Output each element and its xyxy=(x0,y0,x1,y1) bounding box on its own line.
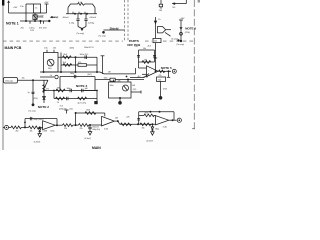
svg-text:0.15µ: 0.15µ xyxy=(69,22,75,24)
svg-text:100n P.U.: 100n P.U. xyxy=(80,54,89,56)
svg-text:(To amp): (To amp) xyxy=(77,33,85,35)
svg-text:22k: 22k xyxy=(127,117,130,119)
svg-text:390k: 390k xyxy=(145,113,149,115)
svg-text:2k2: 2k2 xyxy=(172,7,175,9)
svg-text:+10V: +10V xyxy=(180,18,186,20)
svg-text:(To amp): (To amp) xyxy=(171,39,178,41)
svg-text:2,200µ: 2,200µ xyxy=(88,22,95,24)
svg-text:2k2: 2k2 xyxy=(154,41,157,43)
svg-text:(220): (220) xyxy=(34,98,39,100)
svg-text:MAIN: MAIN xyxy=(92,146,101,150)
svg-text:15k: 15k xyxy=(142,127,145,129)
svg-text:22k: 22k xyxy=(159,75,162,77)
svg-text:IC3: IC3 xyxy=(60,106,63,108)
svg-text:(To amp): (To amp) xyxy=(99,35,106,37)
svg-text:22k: 22k xyxy=(80,128,83,130)
svg-text:(To amp): (To amp) xyxy=(177,44,185,46)
svg-text:1 k: 1 k xyxy=(35,8,38,10)
svg-text:(4.0mV): (4.0mV) xyxy=(147,141,154,143)
svg-text:1k8: 1k8 xyxy=(132,85,135,87)
svg-text:+160mV: +160mV xyxy=(89,17,97,19)
svg-text:4k7: 4k7 xyxy=(138,76,141,78)
svg-text:15k: 15k xyxy=(22,77,25,79)
svg-text:39k: 39k xyxy=(57,88,60,90)
svg-text:MAIN PCB: MAIN PCB xyxy=(5,46,22,50)
svg-text:(6.3mV): (6.3mV) xyxy=(85,138,92,140)
svg-text:100n: 100n xyxy=(67,88,71,90)
svg-text:(2V): (2V) xyxy=(133,89,137,91)
svg-text:10k: 10k xyxy=(143,48,146,50)
svg-text:680p (7kHz): 680p (7kHz) xyxy=(34,119,44,121)
svg-text:(6k8): (6k8) xyxy=(70,47,75,49)
svg-text:1M: 1M xyxy=(144,60,147,62)
svg-text:100mV P.U.: 100mV P.U. xyxy=(84,47,94,49)
svg-text:NOISE: NOISE xyxy=(36,16,44,19)
svg-text:47k: 47k xyxy=(46,89,49,91)
svg-text:100k: 100k xyxy=(86,110,90,112)
svg-text:Ch5a (p): Ch5a (p) xyxy=(5,81,13,83)
svg-text:100p: 100p xyxy=(70,73,74,75)
svg-text:+10V: +10V xyxy=(44,2,50,4)
svg-text:NOTE 1: NOTE 1 xyxy=(6,21,19,25)
svg-text:(To amp): (To amp) xyxy=(29,110,36,112)
svg-text:IC3b: IC3b xyxy=(104,128,108,130)
svg-text:NOTE 5: NOTE 5 xyxy=(161,66,172,70)
svg-text:-160mV: -160mV xyxy=(62,17,69,19)
svg-text:47k: 47k xyxy=(118,81,121,83)
svg-text:1k8: 1k8 xyxy=(115,117,118,119)
svg-text:IC4b: IC4b xyxy=(163,126,167,128)
svg-text:(4k7): (4k7) xyxy=(88,74,93,76)
svg-text:0.068: 0.068 xyxy=(43,130,48,132)
svg-text:(7.5V): (7.5V) xyxy=(143,76,149,78)
svg-text:(6.3mV): (6.3mV) xyxy=(34,142,41,144)
svg-text:+10V: +10V xyxy=(13,7,18,9)
svg-text:4µ7 0.47µ: 4µ7 0.47µ xyxy=(78,102,87,104)
svg-text:240: 240 xyxy=(159,10,162,12)
svg-text:(220k): (220k) xyxy=(185,32,190,34)
svg-text:100n: 100n xyxy=(104,78,108,80)
svg-text:NOTE 6: NOTE 6 xyxy=(185,26,196,30)
svg-text:470k: 470k xyxy=(163,88,167,90)
svg-text:16V: 16V xyxy=(30,30,34,32)
svg-text:100n: 100n xyxy=(110,85,114,87)
svg-text:680p: 680p xyxy=(155,129,159,131)
svg-text:(To amp): (To amp) xyxy=(51,17,59,19)
svg-text:1M: 1M xyxy=(108,72,111,74)
svg-text:1k: 1k xyxy=(57,102,59,104)
svg-text:680p (Pa): 680p (Pa) xyxy=(93,129,101,131)
svg-text:(1k): (1k) xyxy=(70,109,74,111)
svg-text:22k: 22k xyxy=(64,128,67,130)
svg-text:1k: 1k xyxy=(50,75,52,77)
svg-text:2k2: 2k2 xyxy=(16,131,19,133)
svg-text:10k: 10k xyxy=(30,131,33,133)
svg-text:1.5k: 1.5k xyxy=(20,6,24,8)
svg-text:Shield: Shield xyxy=(110,26,119,30)
svg-text:NOTE 2: NOTE 2 xyxy=(38,105,49,109)
svg-text:47k 25V: 47k 25V xyxy=(39,27,47,29)
